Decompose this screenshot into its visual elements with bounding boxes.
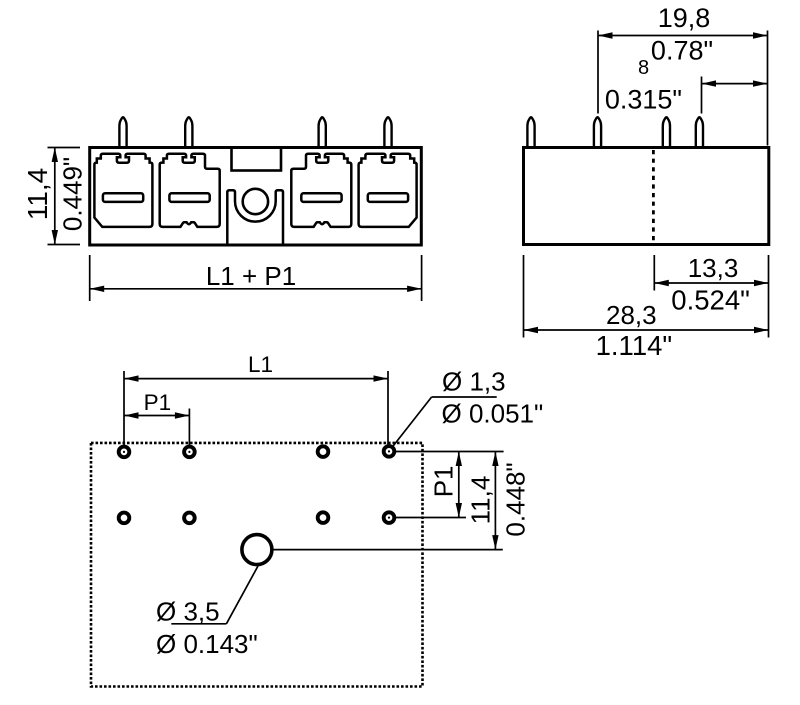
dimension L1 extension line left xyxy=(123,371,125,445)
dimension 19,8 / 8 shared extension line right xyxy=(767,31,769,146)
side view: hidden edge dotted line xyxy=(652,150,655,243)
leader line for Ø 3,5 (diagonal) xyxy=(226,566,258,624)
hole 1 center mark xyxy=(123,451,125,453)
hole 2 center mark xyxy=(188,451,190,453)
dimension L1 + P1 extension line right xyxy=(421,255,423,301)
drilling plan: pin hole 3 (Ø 1,3) xyxy=(318,446,329,457)
drilling plan: pin hole 5 (Ø 1,3) xyxy=(119,513,130,524)
extension line big hole (right) xyxy=(257,549,503,551)
dimension P1 (vertical) dimension line xyxy=(458,452,460,518)
svg-text:Ø 0.143": Ø 0.143" xyxy=(156,629,258,659)
svg-text:0.315": 0.315" xyxy=(605,85,682,115)
svg-text:13,3: 13,3 xyxy=(688,253,739,283)
svg-text:0.78": 0.78" xyxy=(651,36,713,66)
drilling plan: pin hole 4 (Ø 1,3) xyxy=(384,446,395,457)
svg-text:0.524": 0.524" xyxy=(671,284,750,315)
front view: terminal block 2 wire slot xyxy=(169,193,209,202)
dimension 19,8 extension line left xyxy=(597,31,599,114)
dimension L1 extension line right (to hole) xyxy=(387,371,389,452)
svg-text:1.114": 1.114" xyxy=(596,330,673,361)
dimension 11,4 / 0.449" extension tick bottom xyxy=(48,244,81,246)
front view: solder pin 1 xyxy=(119,117,126,147)
svg-text:L1: L1 xyxy=(248,352,273,377)
leader line for Ø 1,3 (horizontal) xyxy=(432,396,497,398)
dimension L1 dimension line xyxy=(124,378,388,380)
dimension 8 extension line left xyxy=(701,77,703,114)
front view: solder pin 3 xyxy=(319,117,326,147)
side view: housing body xyxy=(524,148,769,245)
side view: solder pin 1 xyxy=(527,117,534,147)
leader line for Ø 3,5 (horizontal underline) xyxy=(171,623,226,625)
drilling plan: pin hole 1 (Ø 1,3) xyxy=(119,447,130,458)
drilling plan: mounting hole (Ø 3,5) xyxy=(242,535,272,565)
dimension 11,4 / 0.449" extension tick top xyxy=(48,147,81,149)
dimension 11,4 (vertical) dimension line xyxy=(494,452,496,550)
svg-text:Ø 3,5: Ø 3,5 xyxy=(156,597,220,627)
front view: center recessed keying rectangle xyxy=(232,148,282,171)
drilling plan: pin hole 8 (Ø 1,3) xyxy=(384,512,395,523)
front view: terminal block 2 outline xyxy=(160,154,220,227)
front view: terminal block 3 wire slot xyxy=(301,193,341,202)
dimension 28,3 dimension line xyxy=(524,329,769,331)
front view: terminal block 1 outline xyxy=(94,154,152,227)
hole 4 center mark xyxy=(388,450,390,452)
svg-text:Ø 0.051": Ø 0.051" xyxy=(442,399,544,429)
front view: solder pin 2 xyxy=(185,117,192,147)
svg-text:Ø 1,3: Ø 1,3 xyxy=(442,367,506,397)
dimension 11,4 / 0.449" dimension line xyxy=(54,148,56,245)
dimension L1 + P1 extension line left xyxy=(89,255,91,301)
svg-text:0.448": 0.448" xyxy=(501,462,531,536)
front view: center saddle / flange mount cutout xyxy=(227,190,283,244)
dimension 19,8 dimension line xyxy=(598,35,768,37)
dimension 13,3 / 28,3 shared extension line right xyxy=(768,255,770,338)
svg-text:8: 8 xyxy=(638,57,649,79)
svg-text:11,4: 11,4 xyxy=(22,168,53,220)
svg-text:19,8: 19,8 xyxy=(658,3,711,33)
dimension 13,3 dimension line xyxy=(654,282,768,284)
dimension 8 dimension line xyxy=(702,83,768,85)
leader line for Ø 1,3 (diagonal) xyxy=(390,397,432,450)
drilling plan: board outline (dotted) xyxy=(91,443,423,687)
extension line row 2 (right) xyxy=(396,517,467,519)
front view: terminal block 4 outline xyxy=(359,154,417,227)
svg-text:28,3: 28,3 xyxy=(606,300,657,330)
dimension P1 extension line right xyxy=(188,409,190,446)
front view: center circular bushing xyxy=(243,189,268,214)
svg-text:P1: P1 xyxy=(144,390,172,415)
side view: solder pin 2 xyxy=(594,117,601,147)
dimension L1 + P1 dimension line xyxy=(90,288,422,290)
side view: solder pin 3 xyxy=(663,117,670,147)
dimension P1 dimension line xyxy=(124,415,189,417)
hole 8 center mark xyxy=(388,517,390,519)
drilling plan: pin hole 7 (Ø 1,3) xyxy=(318,512,329,523)
front view: terminal block 3 outline xyxy=(291,154,351,227)
dimension 13,3 extension line left (below dotted line) xyxy=(653,255,655,291)
svg-text:0.449": 0.449" xyxy=(58,157,88,231)
front view: solder pin 4 xyxy=(384,117,391,147)
svg-text:L1 + P1: L1 + P1 xyxy=(206,261,296,291)
dimension 28,3 extension line left xyxy=(523,255,525,338)
front view: terminal block 1 wire slot xyxy=(103,193,143,202)
side view: solder pin 4 xyxy=(696,117,703,147)
front view: connector housing body xyxy=(90,148,422,246)
svg-text:11,4: 11,4 xyxy=(466,476,496,525)
front view: terminal block 4 wire slot xyxy=(368,193,408,202)
svg-text:P1: P1 xyxy=(429,465,459,497)
drilling plan: pin hole 2 (Ø 1,3) xyxy=(184,447,195,458)
drilling plan: pin hole 6 (Ø 1,3) xyxy=(184,513,195,524)
extension line row 1 (right) xyxy=(395,451,504,453)
